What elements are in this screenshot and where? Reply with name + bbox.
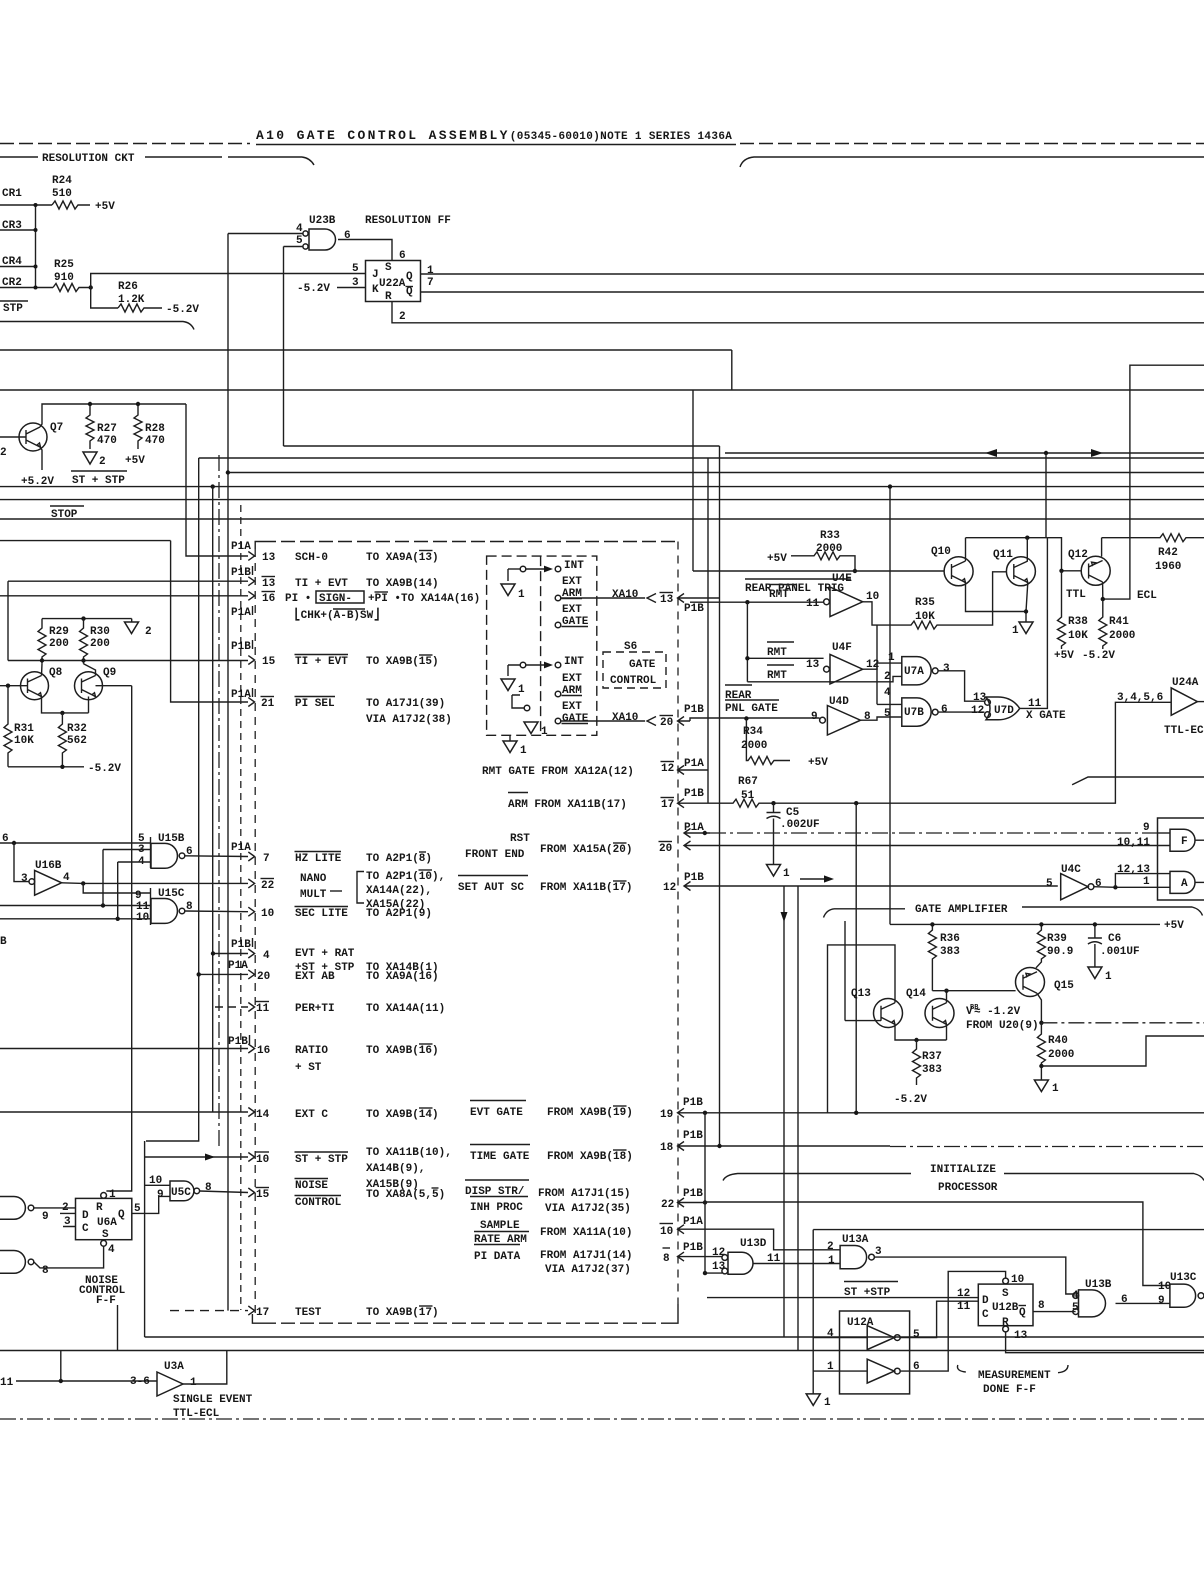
svg-text:D: D [982, 1295, 989, 1307]
svg-text:Q13: Q13 [851, 988, 871, 1000]
svg-text:Q9: Q9 [103, 667, 116, 679]
arrow pin20 [248, 970, 254, 979]
svg-text:INH PROC: INH PROC [470, 1202, 523, 1214]
svg-text:R36: R36 [940, 933, 960, 945]
svg-text:1: 1 [109, 1189, 116, 1201]
svg-text:DONE F-F: DONE F-F [983, 1384, 1036, 1396]
svg-text:13: 13 [806, 659, 820, 671]
svg-text:PI •: PI • [285, 593, 311, 605]
wire U15B pin4 [118, 861, 151, 863]
wire U13A out to U13B pin4 [874, 1257, 1075, 1294]
svg-text:P1B: P1B [683, 1242, 703, 1254]
label REAR PANEL TRIG overlined [745, 578, 851, 580]
capacitor C5 [767, 803, 781, 864]
svg-text:1: 1 [1052, 1083, 1059, 1095]
wire U12A-2 out to U12B S [900, 1271, 1005, 1371]
svg-text:1960: 1960 [1155, 561, 1181, 573]
svg-text:EXT: EXT [562, 604, 582, 616]
svg-text:P1B: P1B [684, 872, 704, 884]
svg-text:4: 4 [108, 1244, 115, 1256]
svg-text:1: 1 [828, 1255, 835, 1267]
arrow pin15 [248, 656, 254, 665]
svg-text:10: 10 [256, 1154, 269, 1166]
svg-text:U4F: U4F [832, 642, 852, 654]
wire Q10 collector [965, 538, 967, 561]
svg-text:1.2K: 1.2K [118, 294, 145, 306]
wire Q11 collector [1026, 538, 1028, 561]
svg-text:P1A: P1A [684, 758, 704, 770]
wire bus y472.5 [228, 472, 1204, 474]
arrow into right bracket row13 [678, 594, 720, 603]
svg-text:FROM XA15A(20): FROM XA15A(20) [540, 844, 632, 856]
svg-text:P1B: P1B [683, 1188, 703, 1200]
svg-text:SEC LITE: SEC LITE [295, 908, 348, 920]
vertical from bus to U3A input [60, 1351, 62, 1382]
wire CR1 row [0, 204, 52, 206]
wire ARM row with R67 [678, 702, 1172, 807]
resistor R36 [928, 924, 936, 990]
wire row4 [213, 953, 248, 955]
bracket for NANO MULT destinations [357, 872, 364, 904]
label PI DATA [474, 1244, 520, 1246]
wire row 13bar from left [8, 580, 248, 582]
arrow pin17 [248, 1306, 254, 1315]
arrow pin22 [248, 879, 254, 888]
switch S2 INT contact [555, 662, 561, 668]
svg-text:18: 18 [660, 1142, 674, 1154]
svg-text:RATIO: RATIO [295, 1045, 328, 1057]
svg-text:20: 20 [257, 971, 270, 983]
wire row16 from left [0, 1048, 248, 1050]
svg-text:2: 2 [99, 456, 106, 468]
svg-text:5: 5 [296, 235, 303, 247]
svg-text:P1A: P1A [684, 822, 704, 834]
svg-text:S6: S6 [624, 641, 637, 653]
svg-text:10: 10 [136, 912, 149, 924]
svg-text:P1B: P1B [228, 1036, 248, 1048]
svg-text:TO XA9B(14): TO XA9B(14) [366, 1109, 439, 1121]
section divider swoosh y777 [1072, 777, 1204, 785]
ground below switch box [509, 735, 511, 741]
wire F pin9 row [684, 829, 710, 838]
wire bus y458 [199, 457, 1204, 459]
svg-text:15: 15 [256, 1189, 270, 1201]
vertical wire x283.5 U23B pin5 feed [283, 247, 285, 447]
svg-text:FROM A17J1(14): FROM A17J1(14) [540, 1250, 632, 1262]
wire bus y540.6 to connector [0, 540, 171, 542]
svg-text:FROM XA11B(17): FROM XA11B(17) [540, 882, 632, 894]
svg-text:.001UF: .001UF [1100, 946, 1140, 958]
label RMT overlined [769, 584, 796, 586]
svg-text:U23B: U23B [309, 215, 336, 227]
label GATE AMPLIFIER header [824, 909, 906, 918]
nand U5C [145, 1184, 170, 1186]
svg-text:1: 1 [518, 589, 525, 601]
ground ref 2 right of rail [131, 619, 133, 622]
wire Q8 base row [0, 685, 28, 687]
svg-text:GATE: GATE [629, 659, 656, 671]
svg-text:1: 1 [518, 684, 525, 696]
switch assembly dashed box [487, 556, 597, 735]
svg-text:11: 11 [806, 598, 820, 610]
wire CR3 row [0, 229, 36, 231]
svg-text:Q10: Q10 [931, 546, 951, 558]
wire emitters Q13/Q14 [895, 1024, 947, 1040]
svg-text:6: 6 [941, 704, 948, 716]
wire U3A input row [16, 1380, 157, 1382]
svg-text:10: 10 [261, 908, 274, 920]
label RMT overlined 3 [767, 664, 794, 666]
svg-text:TTL-ECL: TTL-ECL [173, 1408, 220, 1420]
or-gate U7D [986, 697, 1020, 720]
switch inner dashed divider [540, 556, 542, 735]
wire U12B R to right [1006, 1332, 1204, 1353]
svg-text:19: 19 [660, 1109, 673, 1121]
svg-text:TO XA9A(13): TO XA9A(13) [366, 552, 439, 564]
bubble S top U12B [1003, 1278, 1009, 1284]
svg-text:TTL: TTL [1066, 589, 1086, 601]
arrow pin4 [248, 949, 254, 958]
wire R42 line [1102, 534, 1204, 542]
ground Q10/Q11 [1019, 622, 1033, 634]
svg-text:EVT GATE: EVT GATE [470, 1107, 523, 1119]
wire xgate riser to Q12 base [1047, 538, 1081, 571]
wire row20 from x198.7 corner [199, 973, 248, 975]
svg-text:15: 15 [262, 656, 276, 668]
svg-text:2: 2 [145, 626, 152, 638]
box U12A [840, 1311, 910, 1394]
wire 22 row y1202.5 [678, 1198, 706, 1207]
svg-text:2000: 2000 [816, 543, 842, 555]
wire G1 out to U6A pin2 [34, 1207, 76, 1209]
wire U12A-1 in [813, 1337, 867, 1339]
svg-text:562: 562 [67, 735, 87, 747]
wire Q8 collector [41, 664, 44, 676]
wire -5.2V rail [8, 766, 84, 768]
wire collectors bus y537.7 [966, 537, 1048, 539]
svg-text:RMT: RMT [767, 670, 787, 682]
resistor R32 [58, 713, 66, 767]
svg-text:A10 GATE CONTROL ASSEMBLY(0534: A10 GATE CONTROL ASSEMBLY(05345-60010)NO… [256, 128, 732, 143]
svg-text:XA10: XA10 [612, 712, 638, 724]
svg-text:U7B: U7B [904, 707, 924, 719]
svg-text:1: 1 [1012, 625, 1019, 637]
svg-text:R24: R24 [52, 175, 72, 187]
wire CR2 row with R25 [0, 287, 53, 289]
switch S1 INT contact [555, 566, 561, 572]
svg-text:200: 200 [49, 638, 69, 650]
direction arrow on wire [800, 878, 826, 880]
svg-text:U24A: U24A [1172, 677, 1199, 689]
svg-text:BB: BB [970, 1004, 979, 1012]
svg-text:3: 3 [875, 1246, 882, 1258]
resistor R37 [913, 1040, 921, 1085]
svg-text:R27: R27 [97, 423, 117, 435]
svg-text:TO XA11B(10),: TO XA11B(10), [366, 1147, 452, 1159]
svg-text:12: 12 [712, 1247, 725, 1259]
svg-text:R33: R33 [820, 530, 840, 542]
wire U4F out to U7A pin1 [863, 663, 902, 669]
svg-text:R31: R31 [14, 723, 34, 735]
capacitor C6 [1088, 924, 1102, 967]
and-gate F [1170, 829, 1195, 851]
svg-text:U16B: U16B [35, 860, 62, 872]
svg-text:SAMPLE: SAMPLE [480, 1220, 520, 1232]
arrow pin15b [248, 1188, 254, 1197]
resistor R28 vertical [134, 404, 142, 449]
svg-text:TO A17J1(39): TO A17J1(39) [366, 698, 445, 710]
label EVT GATE [470, 1100, 526, 1102]
svg-text:INT: INT [564, 656, 584, 668]
svg-text:R38: R38 [1068, 616, 1088, 628]
svg-text:-5.2V: -5.2V [297, 283, 330, 295]
svg-text:F-F: F-F [96, 1295, 116, 1307]
vertical x170.6 down to PI SEL row [171, 541, 248, 702]
wire branch up to A pins 12,13 [1115, 874, 1170, 888]
wire TIME GATE row y1146 [678, 1142, 891, 1151]
connector bottom dashed edge [252, 1304, 678, 1323]
svg-text:RESOLUTION CKT: RESOLUTION CKT [42, 153, 135, 165]
wire U13D out to U13A pin1 [754, 1263, 841, 1265]
wire bus y486.6 [0, 486, 1204, 488]
ground S2 [501, 679, 515, 691]
svg-text:9: 9 [1158, 1295, 1165, 1307]
svg-text:10K: 10K [1068, 630, 1088, 642]
section boundary dash-dot x219 [218, 455, 220, 1150]
svg-text:1: 1 [541, 726, 548, 738]
wire line y1201 initialize top [705, 1202, 1170, 1286]
svg-text:EXT: EXT [562, 701, 582, 713]
svg-text:R35: R35 [915, 597, 935, 609]
junction at x=90.7 [89, 285, 93, 289]
svg-text:10: 10 [149, 1175, 162, 1187]
svg-text:EXT AB: EXT AB [295, 971, 335, 983]
wire U3A out up to bus [183, 1351, 227, 1385]
wire row17 dashed [170, 1310, 248, 1312]
arrowhead down x213 [205, 1154, 215, 1161]
transistor Q10 [944, 557, 973, 586]
wire U7B pin4 from vertical x877 [877, 625, 902, 704]
vertical x798 [797, 886, 799, 1351]
label ST+STP overlined [844, 1281, 898, 1283]
svg-text:6: 6 [1121, 1294, 1128, 1306]
svg-text:8: 8 [663, 1253, 670, 1265]
section boundary dash-dot x240.8 [240, 505, 242, 1310]
label ST + STP overlined [71, 470, 127, 472]
svg-text:INT: INT [564, 560, 584, 572]
svg-text:TO XA14A(11): TO XA14A(11) [366, 1003, 445, 1015]
wire -5.2V to pin3 [337, 287, 366, 289]
svg-text:12: 12 [971, 705, 984, 717]
switch S2 pole [520, 662, 526, 668]
svg-text:K: K [372, 284, 379, 296]
svg-text:P1A: P1A [231, 607, 251, 619]
svg-text:1: 1 [888, 652, 895, 664]
wire Q14 collector to node [946, 991, 948, 1003]
wire U23B pin5 from vertical x=283.5 [284, 246, 304, 248]
svg-text:HZ LITE: HZ LITE [295, 853, 342, 865]
vertical bus x228 [227, 234, 229, 1311]
wire U22A pin1 bus [421, 273, 1204, 275]
svg-text:+5V: +5V [808, 757, 828, 769]
svg-text:1: 1 [427, 265, 434, 277]
wire CR4 row [0, 266, 36, 268]
svg-text:+5V: +5V [1054, 650, 1074, 662]
left edge gate G1 [0, 1197, 25, 1220]
svg-text:5: 5 [913, 1329, 920, 1341]
svg-text:U13C: U13C [1170, 1272, 1197, 1284]
svg-text:TO XA9A(16): TO XA9A(16) [366, 971, 439, 983]
arrow pin16 [248, 1044, 254, 1053]
transistor Q7 [19, 423, 47, 451]
wire Q7 collector up to top rail [40, 404, 186, 427]
transistor Q8 [21, 672, 49, 700]
svg-text:INITIALIZE: INITIALIZE [930, 1164, 996, 1176]
arrow pin13 [248, 552, 254, 561]
svg-text:+ ST: + ST [295, 1062, 322, 1074]
svg-text:1: 1 [520, 745, 527, 757]
inverter U12A-2 [867, 1359, 894, 1383]
svg-text:TI + EVT: TI + EVT [295, 656, 348, 668]
wire U15B pin3 [103, 849, 151, 851]
svg-text:6: 6 [1095, 878, 1102, 890]
svg-text:16: 16 [262, 593, 275, 605]
bubble R bottom U12B [1003, 1326, 1009, 1332]
transistor Q11 [1006, 557, 1035, 586]
svg-text:P1B: P1B [684, 788, 704, 800]
svg-text:8: 8 [205, 1182, 212, 1194]
svg-text:4: 4 [884, 687, 891, 699]
svg-text:PI DATA: PI DATA [474, 1251, 521, 1263]
svg-text:6: 6 [399, 250, 406, 262]
wire Q7 base from left [0, 436, 26, 438]
arrow pin14 [248, 1108, 254, 1117]
vertical from arrow mark x1046 [1045, 453, 1047, 538]
svg-text:12: 12 [957, 1288, 970, 1300]
svg-text:R34: R34 [743, 726, 763, 738]
svg-text:ECL: ECL [1137, 590, 1157, 602]
svg-text:TO XA9B(16): TO XA9B(16) [366, 1045, 439, 1057]
switch S1 pole [520, 566, 526, 572]
wire Q12 emitter to ECL riser [1103, 365, 1204, 599]
svg-text:2: 2 [0, 447, 7, 459]
wire row 16bar from left [0, 595, 248, 597]
svg-text:PER+TI: PER+TI [295, 1003, 335, 1015]
bottom dash-dot rule [0, 1418, 1204, 1420]
svg-text:SET AUT SC: SET AUT SC [458, 882, 524, 894]
F/A gates box [1158, 818, 1204, 900]
wire RMT3 to U7A pin2 [747, 676, 901, 681]
svg-text:8: 8 [42, 1265, 49, 1277]
transistor Q9 [75, 672, 103, 700]
title underline [256, 144, 736, 146]
wire U22A pin2 bus [392, 302, 1204, 323]
svg-text:NOISE: NOISE [295, 1180, 328, 1192]
svg-text:14: 14 [256, 1109, 270, 1121]
label MEASUREMENT DONE F-F [957, 1365, 965, 1372]
buffer U24A [1171, 688, 1197, 715]
svg-text:U3A: U3A [164, 1361, 184, 1373]
svg-text:R25: R25 [54, 259, 74, 271]
svg-text:10,11: 10,11 [1117, 837, 1150, 849]
svg-text:383: 383 [940, 946, 960, 958]
svg-text:RMT: RMT [769, 589, 789, 601]
vertical x144.6 [144, 1141, 146, 1337]
svg-text:TI + EVT: TI + EVT [295, 578, 348, 590]
wire row11 dashed [215, 1006, 248, 1008]
svg-text:U22A: U22A [379, 278, 406, 290]
connector right bracket dashed [677, 542, 679, 1305]
svg-text:5: 5 [352, 263, 359, 275]
svg-text:200: 200 [90, 638, 110, 650]
wire U23B pin4 from vertical x=228 [228, 233, 303, 235]
wire U4E out jog to R35 [863, 572, 1007, 629]
svg-text:10K: 10K [14, 735, 34, 747]
svg-text:RESOLUTION FF: RESOLUTION FF [365, 215, 451, 227]
svg-text:51: 51 [741, 790, 755, 802]
svg-text:TO XA9B(17): TO XA9B(17) [366, 1307, 439, 1319]
svg-text:2: 2 [827, 1241, 834, 1253]
svg-text:R: R [385, 291, 392, 303]
wire U13B out to U13C pin9 [1116, 1302, 1170, 1304]
wire Vbb dash to right [1041, 1022, 1204, 1024]
wire U12B out to U13B pin5 [1033, 1311, 1076, 1313]
svg-text:S: S [1002, 1288, 1009, 1300]
svg-text:-5.2V: -5.2V [166, 304, 199, 316]
resistor R34 to +5V [744, 716, 748, 720]
transistor Q15 [1016, 968, 1045, 997]
svg-text:2000: 2000 [1109, 630, 1135, 642]
svg-text:9: 9 [42, 1211, 49, 1223]
and-gate A [1170, 871, 1195, 893]
svg-text:9: 9 [157, 1189, 164, 1201]
wire ST+STP row into U12B pin12 [707, 1297, 978, 1299]
wire U22A pin7 bus [421, 291, 1204, 293]
svg-text:22: 22 [261, 880, 274, 892]
wire U16B out down to U15C pin9 [83, 883, 150, 893]
wire U5C out to arrow 15 [200, 1191, 248, 1193]
wire Q7 emitter down [40, 447, 42, 470]
inverter U12A-1 [867, 1326, 894, 1350]
svg-text:CR1: CR1 [2, 188, 22, 200]
section curve right [740, 157, 1204, 167]
svg-text:R26: R26 [118, 281, 138, 293]
arrow pin11 [248, 1003, 254, 1012]
svg-text:A: A [1181, 878, 1188, 890]
ground R40 [1034, 1080, 1048, 1092]
resistor R31 [4, 686, 12, 767]
wire U16B out [62, 882, 248, 885]
svg-text:12,13: 12,13 [1117, 864, 1150, 876]
arrow pin10b [248, 1153, 254, 1162]
wire U15B out to pin7 arrow [185, 855, 248, 858]
svg-text:U4C: U4C [1061, 864, 1081, 876]
svg-text:FROM U20(9): FROM U20(9) [966, 1020, 1039, 1032]
svg-text:1: 1 [190, 1377, 197, 1389]
svg-text:F: F [1181, 836, 1188, 848]
svg-text:12: 12 [661, 763, 674, 775]
svg-text:17: 17 [256, 1307, 269, 1319]
svg-text:PNL GATE: PNL GATE [725, 703, 778, 715]
wire XA10 bottom [561, 720, 645, 722]
svg-text:1: 1 [824, 1397, 831, 1409]
svg-text:R30: R30 [90, 626, 110, 638]
svg-text:PI SEL: PI SEL [295, 698, 335, 710]
connector left bracket dashed [255, 542, 262, 550]
svg-text:3: 3 [943, 663, 950, 675]
svg-text:+5V: +5V [125, 455, 145, 467]
svg-text:MULT: MULT [300, 889, 327, 901]
